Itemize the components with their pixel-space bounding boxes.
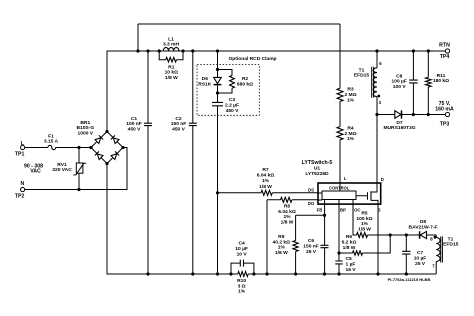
svg-text:10 µF: 10 µF [414, 256, 427, 262]
wire S column [377, 204, 379, 274]
wire RV1 branch [78, 148, 80, 190]
svg-text:1/8 W: 1/8 W [281, 220, 294, 226]
svg-text:450 V: 450 V [226, 108, 240, 114]
wire FB line to R9 [296, 214, 325, 216]
svg-text:RS1K: RS1K [198, 81, 212, 87]
svg-text:100 nF: 100 nF [126, 121, 142, 127]
wire output diode line [377, 114, 445, 116]
junction clamp column at DS line [216, 191, 219, 194]
capacitor C6 150 nF 25 V (FB column) [303, 200, 328, 275]
svg-text:25 V: 25 V [415, 261, 426, 267]
svg-text:25 V: 25 V [306, 249, 317, 255]
svg-text:100 µF: 100 µF [392, 79, 407, 85]
svg-text:L1: L1 [168, 36, 174, 42]
svg-text:1%: 1% [361, 221, 369, 227]
junction bottom rail at R8 [265, 272, 268, 275]
svg-text:DO: DO [308, 201, 315, 206]
svg-text:C5: C5 [346, 256, 353, 262]
svg-text:C4: C4 [238, 241, 245, 247]
svg-text:40.2 kΩ: 40.2 kΩ [273, 239, 291, 245]
resistor R7 6.04 kOhm 1% 1/8 W (DS line) [218, 167, 318, 195]
capacitor C1 100 nF 450 V [126, 51, 152, 274]
node N input terminal TP2 [15, 181, 25, 199]
svg-text:6.2 kΩ: 6.2 kΩ [342, 239, 357, 245]
svg-text:BAV21W-7-F: BAV21W-7-F [409, 225, 438, 231]
svg-text:R6: R6 [346, 234, 353, 240]
node RTN output terminal TP4 [439, 43, 450, 61]
svg-text:150 nF: 150 nF [171, 121, 187, 127]
svg-text:TP4: TP4 [440, 54, 450, 60]
svg-text:TP2: TP2 [15, 193, 25, 199]
optional RCD clamp dashed box [197, 56, 277, 115]
svg-text:EFD15: EFD15 [443, 242, 459, 248]
junction bottom rail at R9 [294, 272, 297, 275]
junction rail at R1 left [158, 49, 161, 52]
op-amp U1 LYTSwitch-5 LYT5226D [302, 160, 384, 212]
svg-text:2 MΩ: 2 MΩ [344, 92, 356, 98]
wire top sense line from L1 input to R3 [138, 24, 340, 51]
polarity dot main winding [377, 95, 380, 98]
svg-text:2 MΩ: 2 MΩ [344, 131, 356, 137]
svg-text:B10S-G: B10S-G [76, 125, 94, 131]
svg-text:16 V: 16 V [346, 267, 357, 273]
svg-text:OC: OC [354, 208, 360, 213]
label input range 90 - 308 VAC [24, 163, 43, 174]
svg-text:6.04 kΩ: 6.04 kΩ [257, 173, 275, 179]
junction rail at R11 [427, 49, 430, 52]
svg-text:C6: C6 [308, 238, 315, 244]
svg-text:100 V: 100 V [393, 84, 407, 90]
junction bridge left vertex [89, 146, 92, 149]
svg-text:T1: T1 [448, 237, 454, 243]
junction bottom rail at C4 right [252, 272, 255, 275]
resistor R5 100 kOhm 1% 1/8 W (OC line) [353, 200, 420, 238]
svg-text:1000 V: 1000 V [78, 131, 94, 137]
resistor R8 6.04 kOhm 1% 1/8 W (DO line) [267, 197, 318, 274]
svg-text:1/8 W: 1/8 W [343, 245, 356, 251]
svg-text:TP1: TP1 [15, 151, 25, 157]
svg-text:D8: D8 [420, 219, 427, 225]
junction clamp bottom node [216, 91, 219, 94]
junction rail at clamp [216, 49, 219, 52]
svg-text:MURS160T3G: MURS160T3G [383, 125, 415, 131]
capacitor C8 100 uF 100 V [392, 51, 418, 115]
junction bottom rail at S pin [376, 272, 379, 275]
resistor R3 2 MOhm 1% [337, 24, 357, 127]
resistor R10 3 Ohm 1% (in return rail) [237, 272, 248, 295]
wire N to bridge right vertex [25, 148, 127, 190]
resistor R6 6.2 kOhm 1/8 W [339, 234, 390, 255]
svg-text:R9: R9 [278, 234, 285, 240]
svg-text:BR1: BR1 [80, 120, 90, 126]
junction rail at C8 [412, 49, 415, 52]
svg-text:Optional RCD Clamp: Optional RCD Clamp [228, 56, 276, 62]
svg-text:1/8 W: 1/8 W [259, 184, 272, 190]
svg-text:EFD15: EFD15 [354, 73, 370, 79]
svg-text:TP3: TP3 [440, 121, 450, 127]
svg-text:1%: 1% [278, 245, 286, 251]
svg-text:1%: 1% [262, 178, 270, 184]
svg-text:1/8 W: 1/8 W [275, 250, 288, 256]
capacitor C3 2.2 uF 450 V [212, 97, 239, 114]
svg-text:D7: D7 [396, 120, 403, 126]
junction output line at C8 [412, 113, 415, 116]
svg-text:CONTROL: CONTROL [329, 185, 350, 190]
svg-text:R10: R10 [237, 278, 246, 284]
diode D7 MURS160T3G [383, 110, 415, 131]
svg-text:450 V: 450 V [128, 126, 142, 132]
varistor RV1 320 VAC [52, 162, 86, 175]
inductor L1 3.3 mH [163, 36, 180, 51]
diode D6 RS1K [198, 76, 221, 87]
svg-text:1%: 1% [283, 214, 291, 220]
svg-text:BP: BP [340, 208, 346, 213]
svg-text:L: L [344, 176, 347, 181]
svg-text:1 µF: 1 µF [346, 262, 356, 268]
junction rail at C1 [146, 49, 149, 52]
junction bottom rail at C7 [405, 272, 408, 275]
junction rail at main winding [375, 49, 378, 52]
junction bridge top vertex [105, 130, 108, 133]
resistor R11 180 kOhm [426, 51, 450, 115]
svg-text:R5: R5 [361, 210, 368, 216]
svg-text:R8: R8 [284, 203, 291, 209]
svg-text:680 kΩ: 680 kΩ [237, 81, 253, 87]
svg-text:3.3 mH: 3.3 mH [163, 41, 180, 47]
svg-text:10 µF: 10 µF [235, 246, 248, 252]
junction bottom rail at C5 [337, 272, 340, 275]
svg-text:6.04 kΩ: 6.04 kΩ [278, 209, 296, 215]
svg-text:DS: DS [308, 187, 314, 192]
svg-text:PI-7763a-111215 HLBB: PI-7763a-111215 HLBB [388, 277, 431, 282]
resistor R1 10 kOhm 1/8 W (parallel with L1) [159, 51, 183, 81]
junction bottom rail at C2 [191, 272, 194, 275]
svg-text:U1: U1 [314, 166, 321, 172]
svg-text:1%: 1% [347, 97, 355, 103]
capacitor C7 10 uF 25 V [402, 235, 426, 274]
polarity dot bias winding [434, 236, 437, 239]
svg-text:180 kΩ: 180 kΩ [433, 78, 449, 84]
node L input terminal TP1 [15, 141, 25, 158]
svg-text:10 V: 10 V [237, 251, 248, 257]
junction bridge right vertex [121, 146, 124, 149]
svg-text:C8: C8 [396, 73, 403, 79]
svg-text:450 V: 450 V [172, 126, 186, 132]
wire L input to bridge [25, 147, 91, 149]
junction rail at C2 [191, 49, 194, 52]
junction bias node at R6 [389, 233, 392, 236]
svg-text:3.15 A: 3.15 A [44, 138, 59, 144]
resistor R4 2 MOhm 1% [337, 125, 357, 183]
svg-text:10 kΩ: 10 kΩ [165, 70, 179, 76]
svg-text:C2: C2 [175, 116, 182, 122]
wire main DC bus rail [107, 51, 445, 132]
svg-text:R3: R3 [347, 87, 354, 93]
svg-text:C7: C7 [417, 250, 424, 256]
wire drain column [376, 51, 378, 183]
junction RV1 bottom [77, 188, 80, 191]
junction clamp top node [216, 68, 219, 71]
svg-text:R7: R7 [262, 167, 269, 173]
svg-text:320 VAC: 320 VAC [52, 167, 72, 173]
diode D8 BAV21W-7-F [409, 219, 438, 239]
svg-text:N: N [21, 181, 25, 187]
svg-text:150 nF: 150 nF [303, 243, 319, 249]
svg-text:FB: FB [317, 208, 323, 213]
svg-text:100 kΩ: 100 kΩ [356, 216, 372, 222]
resistor R9 40.2 kOhm 1% 1/8 W [273, 215, 299, 274]
junction rail at top-wire drop [136, 49, 139, 52]
svg-text:1/8 W: 1/8 W [358, 227, 371, 233]
junction RV1 top [77, 146, 80, 149]
node 75 V 160 mA output terminal TP3 [435, 101, 454, 127]
svg-text:160 mA: 160 mA [435, 106, 454, 112]
svg-text:1%: 1% [347, 136, 355, 142]
fuse F1 3.15 A [44, 133, 59, 149]
svg-text:3 Ω: 3 Ω [238, 283, 246, 289]
junction output line at R11 [427, 113, 430, 116]
bridge rectifier BR1 B10S-G 1000 V [76, 120, 123, 164]
junction rail at R1 right [181, 49, 184, 52]
resistor R2 680 kOhm [218, 70, 254, 94]
junction bridge bottom vertex [105, 162, 108, 165]
svg-text:R4: R4 [347, 125, 354, 131]
junction FB column [323, 214, 326, 217]
junction bias line at C7 [405, 233, 408, 236]
capacitor C2 150 nF 450 V [171, 51, 197, 274]
svg-text:R2: R2 [242, 76, 249, 82]
svg-text:1/8 W: 1/8 W [165, 75, 178, 81]
wire bottom return rail (right part) [248, 273, 436, 275]
capacitor C5 1 uF 16 V (BP column) [335, 200, 356, 275]
junction bottom rail at C4 left [229, 272, 232, 275]
svg-text:D6: D6 [202, 76, 209, 82]
transformer T1 EFD15 bias winding (pins 8-7) [436, 235, 458, 274]
svg-text:RTN: RTN [439, 43, 450, 49]
svg-text:LYT5226D: LYT5226D [305, 171, 329, 177]
svg-text:R1: R1 [168, 64, 175, 70]
svg-text:1%: 1% [238, 289, 246, 295]
junction bottom rail at C1 [146, 272, 149, 275]
wire clamp column [217, 51, 219, 274]
svg-text:C1: C1 [131, 116, 138, 122]
transformer T1 EFD15 main winding (pins 6-3) [354, 67, 377, 98]
wire bottom return rail (left part) [107, 164, 238, 275]
svg-text:2.2 µF: 2.2 µF [225, 102, 239, 108]
svg-text:C3: C3 [229, 97, 236, 103]
capacitor C4 10 uF 10 V (bypass of R10) [231, 241, 254, 275]
junction bottom rail at C6 [323, 272, 326, 275]
svg-text:R11: R11 [437, 73, 446, 79]
junction bottom rail at clamp column [216, 272, 219, 275]
junction drain node at D7 [375, 113, 378, 116]
svg-text:VAC: VAC [30, 169, 41, 175]
svg-text:D: D [381, 177, 384, 182]
svg-text:LYTSwitch-5: LYTSwitch-5 [302, 160, 333, 166]
junction BP column at R6 [337, 251, 340, 254]
